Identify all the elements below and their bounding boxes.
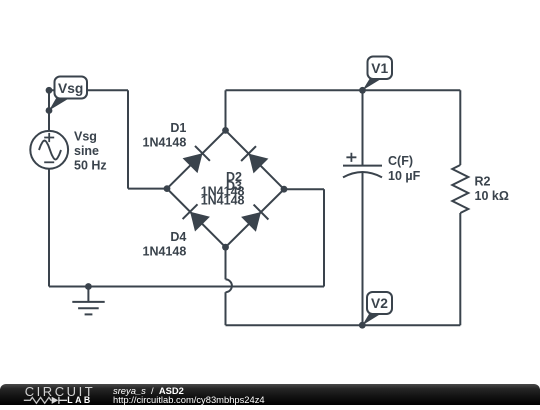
junction node V2 anchor — [359, 322, 366, 329]
diode D1 triangle — [183, 153, 203, 173]
capacitor C(F) top plate — [343, 165, 382, 167]
svg-text:D4: D4 — [170, 230, 186, 244]
junction node bridge left — [164, 185, 171, 192]
svg-text:10 µF: 10 µF — [388, 169, 421, 183]
flag V2 pointer — [362, 314, 380, 325]
diode D1 cathode bar — [195, 146, 210, 161]
wire capacitor top lead — [362, 90, 364, 165]
wire bottom rail y=325 — [226, 324, 461, 326]
junction node V1 anchor — [359, 87, 366, 94]
diode D3 cathode bar — [254, 205, 269, 220]
CircuitLab logo squiggle resistor — [24, 397, 52, 403]
wire bridge top node up — [225, 90, 227, 130]
svg-text:50 Hz: 50 Hz — [74, 159, 107, 173]
svg-text:D3: D3 — [226, 179, 242, 193]
wire capacitor bottom lead — [362, 173, 364, 325]
ground bar 3 — [85, 313, 93, 315]
svg-text:LAB: LAB — [67, 395, 92, 405]
ground bar 2 — [78, 307, 99, 309]
svg-text:Vsg: Vsg — [58, 81, 83, 96]
flag V2 box — [367, 292, 392, 314]
footer bar — [0, 384, 540, 405]
svg-text:V1: V1 — [371, 61, 388, 76]
voltage source Vsg circle — [30, 131, 68, 169]
capacitor C(F) plus sign — [346, 153, 356, 162]
diode D2 triangle — [249, 154, 269, 174]
diode D3 triangle — [241, 212, 261, 232]
resistor R2 — [452, 165, 468, 213]
svg-text:V2: V2 — [371, 296, 388, 311]
voltage source minus sign — [44, 161, 54, 163]
wire source top lead — [48, 90, 50, 131]
svg-text:10 kΩ: 10 kΩ — [475, 189, 509, 203]
flag Vsg pointer — [49, 98, 69, 111]
capacitor C(F) bottom plate (curved) — [343, 172, 382, 177]
wire vertical x=128 — [127, 90, 129, 188]
wire R2 top lead — [459, 90, 461, 165]
junction node ground tap — [85, 283, 92, 290]
wire source bottom lead — [48, 169, 50, 287]
junction node Vsg flag anchor — [46, 107, 53, 114]
wire right branch into bridge right node — [284, 188, 324, 190]
diode D4 cathode bar — [183, 204, 198, 219]
voltage source plus sign — [44, 133, 54, 142]
svg-text:1N4148: 1N4148 — [201, 194, 245, 208]
wire hop to bottom rail — [225, 292, 227, 325]
flag Vsg box — [55, 77, 88, 99]
diode D4 triangle — [190, 212, 210, 232]
wire from Vsg node to top-left corner — [49, 89, 128, 91]
wire into bridge left node — [128, 188, 167, 190]
junction node bridge bottom — [222, 244, 229, 251]
footer credit text — [113, 386, 265, 404]
wire bridge bottom down to hop — [225, 247, 227, 279]
ground bar 1 — [72, 301, 104, 303]
wire right branch up — [323, 189, 325, 286]
svg-text:sine: sine — [74, 144, 99, 158]
diode D2 cathode bar — [241, 146, 256, 161]
wire ground rail y=286.5 — [49, 286, 324, 288]
svg-text:D1: D1 — [170, 121, 186, 135]
svg-text:C(F): C(F) — [388, 154, 413, 168]
wire R2 bottom lead — [459, 213, 461, 325]
CircuitLab logo squiggle diode — [52, 397, 59, 404]
flag V1 pointer — [363, 79, 382, 90]
svg-text:Vsg: Vsg — [74, 130, 97, 144]
wire top rail y=90 — [226, 89, 461, 91]
bridge diamond edges — [167, 130, 284, 247]
svg-text:1N4148: 1N4148 — [143, 135, 187, 149]
svg-text:R2: R2 — [475, 174, 491, 188]
wire hop over ground rail — [226, 279, 232, 292]
junction node bridge top — [222, 127, 229, 134]
junction node bridge right — [281, 186, 288, 193]
ground stem — [87, 287, 89, 302]
junction node at Vsg top corner — [46, 87, 53, 94]
flag V1 box — [368, 57, 393, 80]
svg-text:1N4148: 1N4148 — [143, 244, 187, 258]
voltage source sine wave — [39, 141, 61, 160]
